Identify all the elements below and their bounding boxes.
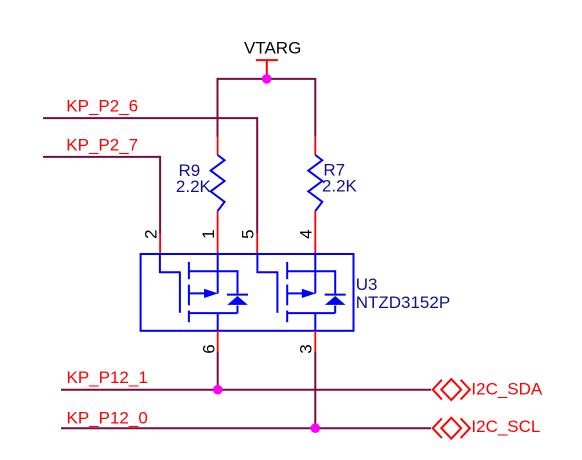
off-page connector I2C_SCL: [433, 418, 470, 439]
svg-text:KP_P12_0: KP_P12_0: [67, 408, 148, 427]
svg-text:NTZD3152P: NTZD3152P: [356, 293, 450, 312]
svg-text:U3: U3: [356, 275, 378, 294]
svg-text:I2C_SCL: I2C_SCL: [471, 417, 540, 436]
svg-text:2.2K: 2.2K: [176, 177, 212, 196]
svg-text:3: 3: [297, 344, 316, 353]
junction dot pin6/KP_P12_1: [213, 385, 223, 395]
transistor Q-B (right P-MOSFET of U3): [257, 254, 345, 331]
power symbol VTARG: [256, 60, 278, 79]
junction dot pin3/KP_P12_0: [311, 423, 321, 433]
wire VTARG left vertical to R9: [217, 78, 219, 137]
resistor R9: [211, 137, 225, 255]
op-amp U3 body box: [141, 254, 354, 331]
wire VTARG right vertical to R7: [314, 78, 316, 137]
svg-text:I2C_SDA: I2C_SDA: [471, 379, 543, 398]
wire KP_P12_1 horizontal: [61, 389, 431, 391]
wire VTARG horizontal: [218, 78, 316, 80]
wire KP_P2_7 vertical to pin 2: [159, 156, 161, 234]
svg-text:VTARG: VTARG: [244, 39, 301, 58]
svg-text:2: 2: [141, 229, 160, 238]
svg-text:KP_P2_6: KP_P2_6: [66, 96, 138, 115]
off-page connector I2C_SDA: [433, 379, 470, 400]
body diode (right MOSFET): [325, 296, 346, 305]
transistor Q-A (left P-MOSFET of U3): [160, 254, 248, 331]
pin 5 (red pin segment): [256, 233, 258, 255]
svg-text:KP_P12_1: KP_P12_1: [67, 368, 148, 387]
svg-text:4: 4: [297, 229, 316, 238]
wire KP_P2_6 horizontal: [43, 117, 257, 119]
arrow (left MOSFET source): [204, 289, 218, 298]
pin 6 (red pin segment): [217, 331, 219, 352]
body diode (left MOSFET): [227, 296, 248, 305]
junction dot VTARG: [262, 74, 272, 84]
resistor R7: [308, 137, 322, 255]
svg-text:5: 5: [239, 229, 258, 238]
wire pin 3 to KP_P12_0: [314, 352, 316, 428]
wire KP_P2_7 horizontal: [43, 156, 160, 158]
pin 3 (red pin segment): [314, 331, 316, 352]
wire KP_P2_6 vertical to pin 5: [256, 117, 258, 233]
svg-text:2.2K: 2.2K: [322, 177, 358, 196]
wire KP_P12_0 horizontal: [61, 427, 431, 429]
arrow (right MOSFET source): [302, 289, 316, 298]
svg-text:1: 1: [199, 229, 218, 238]
svg-text:KP_P2_7: KP_P2_7: [66, 135, 138, 154]
pin 2 (red pin segment): [159, 233, 161, 255]
wire pin 6 to KP_P12_1: [217, 352, 219, 390]
svg-text:6: 6: [199, 344, 218, 353]
